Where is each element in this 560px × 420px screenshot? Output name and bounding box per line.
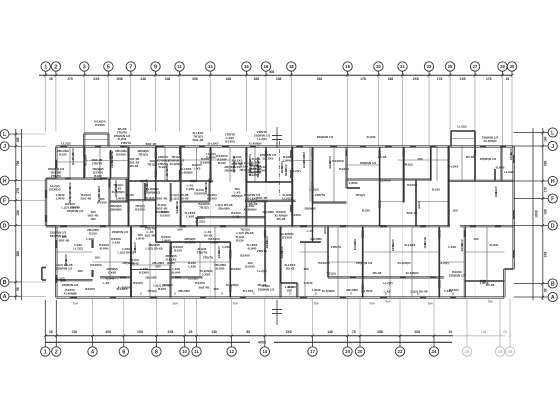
row bubble A right: [548, 292, 557, 301]
svg-text:B0Z 4B: B0Z 4B: [157, 197, 168, 201]
right row stub F: [514, 198, 549, 200]
wall y201 mid: [181, 200, 210, 202]
svg-text:B,H40: B,H40: [216, 266, 225, 270]
svg-text:2N8: 2N8: [117, 77, 123, 81]
svg-text:B4Z0: B4Z0: [417, 201, 421, 209]
svg-text:B,H40: B,H40: [490, 243, 499, 247]
svg-text:B0Z2: B0Z2: [323, 226, 327, 234]
svg-text:20: 20: [358, 349, 363, 354]
svg-text:B-L8X0: B-L8X0: [448, 165, 459, 169]
pier: [120, 276, 126, 278]
axis bubble 30: [507, 62, 516, 71]
wall y280 left: [56, 279, 92, 281]
pier: [448, 150, 450, 158]
expansion joint marker top: [276, 127, 278, 148]
beam: [84, 139, 108, 141]
svg-text:LL2(2): LL2(2): [457, 125, 466, 129]
svg-text:B-L8X0: B-L8X0: [208, 142, 219, 146]
svg-text:1,X60: 1,X60: [210, 240, 218, 244]
svg-text:B1X00: B1X00: [160, 213, 170, 217]
svg-text:11: 11: [194, 349, 199, 354]
svg-text:ZB(W)N 1/2: ZB(W)N 1/2: [258, 287, 275, 291]
pier: [480, 280, 486, 282]
svg-text:2BxXB0: 2BxXB0: [310, 237, 322, 241]
beam: [93, 261, 132, 263]
top dimension ticks: [44, 74, 47, 77]
row bubble L left: [0, 130, 9, 139]
beam: [214, 226, 216, 297]
top dimension line: [39, 74, 513, 76]
pier: [222, 145, 229, 147]
grid line axis 13: [209, 71, 211, 75]
svg-text:B1X60: B1X60: [257, 168, 267, 172]
svg-text:98: 98: [16, 287, 20, 291]
svg-text:2TB/TA: 2TB/TA: [257, 249, 268, 253]
svg-text:7X4: 7X4: [369, 301, 375, 305]
svg-text:278: 278: [16, 188, 20, 194]
svg-text:B1X0: B1X0: [59, 152, 67, 156]
bottom grid stub 4: [92, 336, 94, 347]
pier: [245, 150, 247, 157]
pier: [311, 150, 313, 157]
svg-text:7B1(2): 7B1(2): [326, 272, 335, 276]
svg-text:LL2(2): LL2(2): [291, 169, 300, 173]
svg-text:ZB(W)N 1/2: ZB(W)N 1/2: [112, 230, 129, 234]
pier: [130, 230, 132, 238]
wall x197 lower: [196, 217, 198, 226]
svg-text:B-L8X0: B-L8X0: [117, 287, 128, 291]
svg-text:180B: 180B: [509, 152, 513, 160]
svg-text:B2X4: B2X4: [217, 251, 221, 259]
pier: [100, 225, 106, 227]
svg-text:248: 248: [165, 77, 171, 81]
pier: [209, 150, 211, 156]
svg-text:2B-X8: 2B-X8: [378, 155, 387, 159]
svg-text:B: B: [3, 280, 7, 286]
pier: [380, 296, 387, 298]
wall y226: [46, 225, 450, 227]
beam: [404, 179, 430, 181]
pier: [430, 276, 436, 278]
wall left edge lower: [55, 226, 57, 297]
grid line axis 21: [402, 71, 404, 75]
axis bubble 2: [51, 62, 60, 71]
svg-text:XL4(W)N: XL4(W)N: [484, 139, 498, 143]
svg-text:1,W40: 1,W40: [364, 289, 373, 293]
wall left jog at y178: [46, 177, 56, 179]
svg-text:18: 18: [289, 64, 294, 69]
beam: [245, 192, 247, 226]
svg-text:LL2(2): LL2(2): [73, 246, 82, 250]
bottom axis bubble 14: [260, 347, 269, 356]
wall top edge: [56, 145, 514, 147]
svg-text:B2X4: B2X4: [280, 166, 284, 174]
svg-text:2X8: 2X8: [413, 77, 419, 81]
beam: [416, 201, 449, 203]
wall x430: [430, 146, 432, 181]
svg-text:798: 798: [16, 160, 20, 166]
svg-text:B1X050: B1X050: [256, 199, 267, 203]
beam: [156, 159, 231, 161]
svg-text:1,X60: 1,X60: [188, 264, 196, 268]
wall y181 mid: [129, 179, 214, 181]
pier: [169, 250, 171, 257]
svg-text:F: F: [3, 198, 6, 204]
bottom axis bubble 19: [343, 347, 352, 356]
bottom grid stub 14: [264, 336, 266, 347]
svg-text:LL2(2): LL2(2): [439, 261, 448, 265]
svg-text:248: 248: [317, 77, 323, 81]
bottom grid stub 20: [359, 336, 361, 347]
pier: [438, 280, 440, 288]
bottom grid stub 12: [231, 336, 233, 347]
wall x230 lower: [229, 242, 231, 298]
wall x448: [448, 146, 450, 226]
pier: [200, 296, 206, 298]
svg-text:1,W40: 1,W40: [136, 236, 145, 240]
beam: [84, 160, 129, 162]
wall x170: [169, 242, 171, 298]
pier: [290, 205, 292, 212]
pier: [140, 180, 147, 182]
grid line axis 19: [347, 71, 349, 75]
svg-text:180: 180: [90, 217, 95, 221]
svg-text:270: 270: [67, 77, 73, 81]
wall y277 right unit: [328, 276, 444, 278]
bottom dimension line: [46, 335, 454, 337]
svg-text:B1X60: B1X60: [207, 196, 217, 200]
pier: [127, 169, 129, 177]
svg-text:B1X60: B1X60: [231, 267, 241, 271]
svg-text:XL4(W)N: XL4(W)N: [226, 283, 240, 287]
wall x439: [438, 226, 440, 297]
svg-text:2B(W)B: 2B(W)B: [304, 207, 316, 211]
svg-text:XL4(W)N: XL4(W)N: [180, 170, 194, 174]
joint center dashed line: [279, 141, 281, 196]
svg-text:298: 298: [543, 161, 547, 167]
wall x379: [379, 147, 381, 226]
svg-text:7B1(2): 7B1(2): [239, 168, 248, 172]
svg-text:2BxXB0: 2BxXB0: [218, 206, 230, 210]
svg-text:28: 28: [503, 330, 507, 334]
svg-text:88: 88: [246, 330, 250, 334]
svg-text:LL2(2): LL2(2): [383, 281, 392, 285]
svg-text:754: 754: [232, 301, 237, 305]
grid line axis 25: [449, 71, 451, 75]
svg-text:B0Z 4B: B0Z 4B: [81, 196, 92, 200]
axis bubble 25: [445, 62, 454, 71]
grid line axis 15: [245, 71, 247, 75]
axis bubble 27: [470, 62, 479, 71]
svg-text:180: 180: [543, 136, 547, 142]
svg-text:ZB(W)N 1/2: ZB(W)N 1/2: [317, 135, 334, 139]
svg-text:1,X60: 1,X60: [202, 272, 210, 276]
svg-text:B1X60: B1X60: [240, 254, 250, 258]
svg-text:178: 178: [360, 77, 366, 81]
svg-text:180: 180: [303, 267, 308, 271]
beam: [337, 226, 339, 297]
pier: [240, 296, 246, 298]
svg-text:754: 754: [385, 300, 390, 304]
pier: [60, 145, 67, 147]
svg-text:2B-X8: 2B-X8: [286, 266, 295, 270]
svg-text:1X8: 1X8: [16, 210, 20, 216]
pier: [330, 145, 337, 147]
svg-text:ZB(W)N 1/2: ZB(W)N 1/2: [356, 261, 373, 265]
grid line axis 2: [55, 71, 57, 75]
bottom grid stub 2: [55, 336, 57, 347]
svg-text:2B0X: 2B0X: [110, 160, 114, 168]
svg-text:F: F: [551, 196, 554, 202]
wall left jog at y226: [46, 225, 56, 227]
pier: [175, 276, 181, 278]
wall right edge upper: [512, 146, 514, 269]
wall left edge mid: [44, 179, 46, 227]
wall x312: [312, 147, 314, 203]
beam: [328, 261, 363, 263]
svg-text:D: D: [551, 223, 555, 229]
svg-text:2B(W)B: 2B(W)B: [231, 194, 243, 198]
row bubble F right: [548, 194, 557, 203]
svg-text:1: 1: [44, 64, 47, 70]
left dimension lines: [15, 129, 17, 300]
bottom axis bubble 6: [119, 347, 128, 356]
svg-text:1,W40: 1,W40: [162, 238, 171, 242]
svg-text:B,H40: B,H40: [146, 196, 155, 200]
svg-text:B1X60: B1X60: [139, 270, 149, 274]
pier: [385, 145, 392, 147]
svg-text:B,H40: B,H40: [100, 246, 109, 250]
axis bubble 7: [126, 62, 135, 71]
pier: [179, 145, 185, 147]
svg-text:180: 180: [452, 209, 457, 213]
wall x475: [473, 146, 475, 181]
wall y277 mid: [100, 276, 131, 278]
axis bubble 3: [80, 62, 89, 71]
bottom axis bubble 1: [41, 347, 50, 356]
pier: [296, 145, 303, 147]
svg-text:148: 148: [211, 330, 217, 334]
beam: [347, 164, 380, 166]
wall x126 bath: [125, 179, 127, 202]
wall x346: [345, 147, 347, 188]
pier: [45, 190, 47, 198]
pier: [265, 150, 267, 156]
svg-text:2X8: 2X8: [137, 330, 143, 334]
beam: [363, 251, 440, 253]
svg-text:18/8: 18/8: [423, 242, 427, 248]
row bubble H left: [0, 176, 9, 185]
bottom grid stub 11: [196, 336, 198, 347]
beam: [380, 201, 404, 203]
svg-text:2B-X8: 2B-X8: [466, 155, 475, 159]
row bubble B left: [0, 278, 9, 287]
bottom axis bubble 17: [308, 347, 317, 356]
beam: [149, 242, 151, 298]
svg-text:XL4(W)N: XL4(W)N: [398, 261, 412, 265]
pier: [311, 182, 313, 190]
grid line axis 18: [290, 71, 292, 75]
svg-text:B1X00: B1X00: [133, 281, 143, 285]
svg-text:2B-X8: 2B-X8: [258, 283, 267, 287]
axis bubble 5: [104, 62, 113, 71]
wall left edge upper: [55, 147, 57, 179]
wall x403: [403, 147, 405, 203]
svg-text:28: 28: [189, 330, 193, 334]
joint bottom box: [279, 283, 281, 298]
svg-text:28: 28: [498, 349, 503, 354]
pier: [83, 148, 85, 156]
svg-text:XL4(W)N: XL4(W)N: [322, 289, 336, 293]
svg-text:B-L8X0: B-L8X0: [185, 240, 196, 244]
svg-text:7: 7: [129, 64, 132, 70]
svg-text:LL2(2): LL2(2): [188, 276, 197, 280]
right row stub L: [514, 132, 549, 134]
beam: [131, 264, 170, 266]
svg-text:L1(2) 2B-X8: L1(2) 2B-X8: [61, 205, 78, 209]
svg-text:B1X050: B1X050: [90, 263, 101, 267]
svg-text:BZ4B: BZ4B: [328, 160, 332, 169]
svg-text:17: 17: [310, 349, 315, 354]
row bubble B right: [548, 279, 557, 288]
wall x327: [326, 226, 328, 277]
pier: [180, 225, 186, 227]
beam: [109, 226, 111, 277]
pier: [60, 279, 66, 281]
svg-text:B1X050: B1X050: [379, 179, 390, 183]
grid line axis 30: [511, 71, 513, 75]
svg-text:2TB/TA: 2TB/TA: [197, 250, 208, 254]
pier: [91, 240, 93, 248]
svg-text:BZ4B: BZ4B: [175, 205, 179, 214]
svg-text:78: 78: [352, 330, 356, 334]
svg-text:7B1(2): 7B1(2): [147, 289, 156, 293]
svg-text:J: J: [3, 144, 6, 150]
svg-text:B0Z 4B: B0Z 4B: [146, 142, 157, 146]
right dimension lines: [532, 128, 534, 300]
svg-text:B1X00: B1X00: [195, 281, 205, 285]
svg-text:8: 8: [155, 349, 158, 355]
svg-text:2TB/TA: 2TB/TA: [315, 193, 326, 197]
wall right jog: [504, 267, 513, 269]
svg-text:24: 24: [432, 349, 437, 354]
wall x131 lower: [130, 226, 132, 297]
pier: [209, 171, 211, 181]
pier: [480, 145, 486, 147]
svg-text:XL4(W)N: XL4(W)N: [249, 142, 263, 146]
svg-text:2X8: 2X8: [543, 251, 547, 257]
svg-text:J: J: [551, 144, 554, 150]
svg-text:L-X0: L-X0: [103, 281, 110, 285]
svg-text:7B1(2): 7B1(2): [138, 152, 147, 156]
svg-text:B1X0: B1X0: [126, 193, 134, 197]
beam: [56, 251, 92, 253]
bottom grid stub 1: [44, 336, 46, 347]
svg-text:2X4: 2X4: [172, 301, 178, 305]
svg-text:H: H: [551, 179, 555, 185]
wall x246: [245, 147, 247, 226]
svg-text:B2X4: B2X4: [460, 244, 464, 252]
svg-text:B2X4: B2X4: [280, 251, 284, 259]
svg-text:2X8: 2X8: [286, 330, 292, 334]
joint corridor walls: [265, 180, 293, 182]
row bubble D right: [548, 221, 557, 230]
pier: [420, 296, 426, 298]
svg-text:4: 4: [91, 349, 94, 355]
grid line axis 3: [83, 71, 85, 75]
beam: [69, 147, 71, 179]
svg-text:15: 15: [244, 64, 249, 69]
beam: [465, 251, 505, 253]
svg-text:LL2(2): LL2(2): [309, 188, 318, 192]
svg-text:1,W40: 1,W40: [349, 181, 358, 185]
pier: [45, 215, 47, 222]
beam: [461, 146, 463, 181]
bottom axis bubble 8: [152, 347, 161, 356]
stair box 3: [449, 131, 451, 147]
right row stub A: [514, 296, 549, 298]
svg-text:1,W40: 1,W40: [304, 281, 313, 285]
pier: [120, 145, 127, 147]
bottom axis bubble 2: [52, 347, 61, 356]
svg-text:2B-X8: 2B-X8: [130, 164, 139, 168]
wall x109 mid: [108, 179, 110, 227]
svg-text:2X8: 2X8: [93, 77, 99, 81]
svg-text:26: 26: [465, 349, 470, 354]
svg-text:B: B: [551, 281, 555, 287]
svg-text:B1X60: B1X60: [282, 235, 292, 239]
pier: [109, 152, 111, 159]
svg-text:2X8: 2X8: [460, 77, 466, 81]
svg-text:XL4(W)N: XL4(W)N: [406, 271, 420, 275]
wall y182 joint: [246, 180, 279, 182]
bottom axis bubble 28: [495, 347, 504, 356]
svg-text:22: 22: [398, 349, 403, 354]
wall x84: [83, 147, 85, 179]
balcony bottom left: [40, 268, 42, 281]
svg-text:1,X60: 1,X60: [112, 240, 120, 244]
pier: [380, 225, 387, 227]
svg-text:1,X60: 1,X60: [186, 187, 194, 191]
beam: [411, 226, 413, 297]
pier: [300, 225, 307, 227]
beam: [99, 147, 101, 179]
pier: [420, 225, 426, 227]
bottom axis bubble 10: [180, 347, 189, 356]
pier: [60, 225, 67, 227]
svg-text:B1X0: B1X0: [89, 231, 97, 235]
bottom grid stub 29: [509, 336, 511, 347]
grid line axis 23: [428, 71, 430, 75]
svg-text:5: 5: [107, 64, 110, 70]
pier: [495, 225, 501, 227]
svg-text:B1X050: B1X050: [318, 261, 329, 265]
svg-text:3X8: 3X8: [414, 330, 420, 334]
svg-text:B1X60: B1X60: [200, 160, 210, 164]
svg-text:BZ4B: BZ4B: [145, 183, 149, 192]
svg-text:ZB(W)N 1/2: ZB(W)N 1/2: [62, 283, 79, 287]
bottom dimension ticks: [44, 335, 47, 338]
bottom grid stub 19: [347, 336, 349, 347]
svg-text:1,W40: 1,W40: [283, 158, 292, 162]
left row stub J: [9, 145, 22, 147]
svg-text:1,X60: 1,X60: [86, 237, 94, 241]
svg-text:LL2(2): LL2(2): [55, 276, 64, 280]
svg-text:LL2(2): LL2(2): [282, 196, 291, 200]
svg-text:B1X00: B1X00: [407, 183, 417, 187]
svg-text:B1X0: B1X0: [158, 287, 166, 291]
pier: [250, 145, 256, 147]
